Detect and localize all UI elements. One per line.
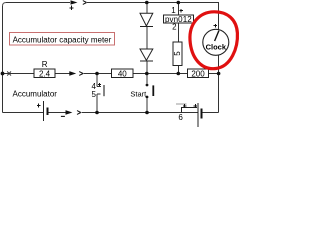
svg-text:Clock: Clock xyxy=(206,43,227,52)
svg-text:5: 5 xyxy=(173,51,182,56)
svg-text:R: R xyxy=(42,60,48,69)
svg-text:pvn012: pvn012 xyxy=(165,15,192,24)
svg-text:6: 6 xyxy=(178,113,183,122)
svg-text:2.4: 2.4 xyxy=(39,69,51,78)
svg-text:200: 200 xyxy=(191,69,205,78)
svg-text:5: 5 xyxy=(91,90,96,99)
svg-text:Accumulator capacity meter: Accumulator capacity meter xyxy=(13,35,112,44)
svg-text:1: 1 xyxy=(171,6,176,15)
svg-text:2: 2 xyxy=(172,23,177,32)
svg-text:40: 40 xyxy=(118,69,127,78)
svg-text:Start: Start xyxy=(130,89,147,98)
svg-text:Accumulator: Accumulator xyxy=(13,90,58,99)
